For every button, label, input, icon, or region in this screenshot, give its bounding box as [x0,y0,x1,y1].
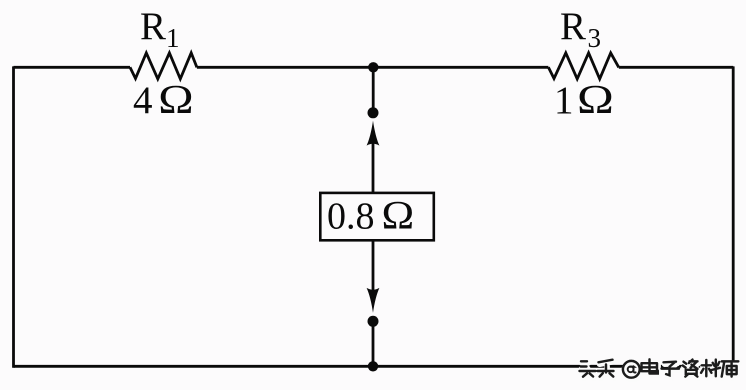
svg-text:0.8: 0.8 [327,196,375,238]
wire: top right segment [619,66,733,69]
node: bottom junction dot [368,361,378,371]
arrow down (head) [367,288,380,313]
node: top junction dot [368,62,378,72]
svg-text:Ω: Ω [382,194,415,238]
char tou [580,361,596,376]
wire: middle branch lower stub [372,321,375,366]
char dian [642,359,658,373]
node: upper branch dot [368,107,379,118]
wire: top middle segment [197,66,549,69]
char ku [722,361,739,376]
node: lower branch dot [368,316,379,327]
resistor R1 [130,53,197,79]
arrow down (stem) [372,240,375,290]
arrow up (head) [367,121,380,146]
at sign [623,361,640,378]
char zi [662,362,680,376]
wire: middle branch upper stub [372,67,375,113]
resistor value box 0.8 ohm [320,193,434,240]
char tiao [598,360,614,377]
svg-text:1: 1 [554,79,574,122]
wire: right vertical [732,66,735,367]
char zi2 [683,360,698,377]
watermark text: tou tiao @ dian zi zi liao ku [580,359,740,379]
wire: left vertical [12,66,15,367]
resistor R3 [548,53,618,79]
svg-text:4: 4 [133,79,153,122]
wire: top left segment [14,66,131,69]
svg-text:Ω: Ω [158,76,193,122]
wire: bottom horizontal [14,365,734,368]
char liao [701,360,720,377]
arrow up (stem) [372,144,375,195]
svg-text:Ω: Ω [577,76,614,122]
